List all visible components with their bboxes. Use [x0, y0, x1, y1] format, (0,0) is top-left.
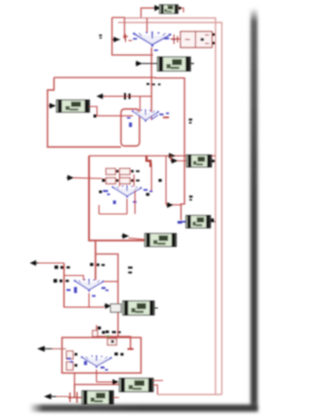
wire stage3 left edge: [89, 156, 145, 241]
wire Ra right lead + dot: [212, 160, 216, 162]
component marks stage4 row2: [54, 279, 69, 283]
arrow bottom-left of Rb2: [45, 394, 57, 398]
output label red stage2: [163, 117, 169, 119]
black dots on link: [107, 340, 110, 343]
rect stage5: [62, 338, 141, 374]
op-amp U1: [133, 31, 171, 46]
op-amp U5: [81, 355, 112, 367]
arrow at row end: [167, 203, 173, 207]
wire stage4 bottom: [64, 306, 89, 308]
green junction speck: [107, 336, 110, 338]
wire bottom long horizontal: [158, 394, 222, 396]
blue stub into Rb: [180, 221, 187, 223]
op-amp U3 labels: [103, 189, 153, 204]
component row2 stage3: [106, 178, 130, 184]
blue speck right of R4 top: [178, 221, 183, 224]
page shadow right bar: [29, 8, 258, 412]
resistor R4: [145, 234, 177, 247]
wire cap to op-amp2: [139, 96, 141, 110]
wire op-amp2 out join: [152, 115, 159, 120]
wire stage2 left frame: [48, 78, 122, 148]
wire input to vertical: [39, 262, 65, 264]
resistor Rb2: [82, 391, 114, 404]
grey element before R5: [111, 304, 122, 312]
black specks U3 sides: [99, 191, 149, 196]
wire stage1 rect left: [112, 18, 153, 56]
arrow into R top: [153, 6, 160, 11]
wire op-amp4 apex down: [89, 293, 104, 307]
wire relay to border ticks: [212, 35, 216, 44]
marks above stage5: [106, 331, 121, 334]
label f (stage1 left): [99, 35, 102, 37]
wire Rb1 top stub: [153, 380, 163, 382]
wire R4 left lead: [129, 238, 146, 240]
label Rk right column: [189, 119, 192, 124]
node dot R top: [179, 7, 182, 10]
arrow input stage4: [31, 261, 39, 265]
wire stage3 top line1: [89, 155, 216, 157]
wire op-amp1 output stub: [171, 38, 181, 40]
arrow into R3: [49, 104, 56, 108]
op-amp U2 labels: [127, 113, 169, 128]
specks right in stage5: [115, 353, 124, 356]
wire link horizontal: [98, 337, 131, 349]
label R9 stage4 right: [128, 267, 133, 274]
arrow stage2 top left: [97, 94, 105, 98]
label Rm right column: [189, 196, 192, 201]
node dots relay right: [212, 33, 215, 36]
wire R2 right lead: [191, 63, 195, 65]
wire Rb2 right lead: [114, 397, 119, 399]
wire stage1 inner vertical: [124, 18, 126, 40]
wire into op-amp2 minus: [97, 115, 133, 117]
wire stage4 left vertical: [63, 263, 65, 308]
arrow on stage3 top: [168, 154, 175, 158]
output pin marks: [174, 35, 178, 45]
wire right inner vertical: [125, 18, 216, 395]
relay box X1: [181, 32, 213, 48]
op-amp U3: [112, 185, 142, 197]
resistor Rb1: [119, 378, 153, 391]
marks above op-amp4: [90, 263, 105, 266]
wire R top right lead: [178, 8, 184, 13]
op-amp U1 labels: [133, 38, 175, 52]
wire stage1 top join: [112, 17, 125, 19]
red cluster left of Rb2: [68, 385, 82, 404]
wire into R top: [141, 8, 153, 18]
arrow op-amp1 input: [112, 37, 120, 41]
wire Ra left lead: [178, 160, 187, 162]
op-amp U5 labels: [67, 358, 108, 371]
page shadow bottom bar: [29, 405, 258, 412]
wire R3 right lead: [90, 107, 98, 116]
resistor Ra: [187, 155, 212, 167]
node dot R3 right: [94, 115, 97, 118]
wires under op-amp3: [99, 190, 135, 214]
wire right column verticals stage3: [166, 156, 181, 205]
component marks stage4 row1: [55, 266, 70, 269]
wire into op-amp4 plus: [104, 281, 118, 283]
component cluster left of link: [98, 327, 106, 334]
wire op-amp1 apex down long: [151, 48, 153, 121]
arrow into R4: [122, 234, 129, 238]
wire to Rb1: [97, 381, 113, 383]
arrow into Rb1: [112, 380, 118, 384]
rounded sub-rect stage2: [121, 109, 140, 146]
resistor R3: [57, 100, 90, 112]
resistor R2: [158, 57, 191, 71]
resistor R top: [160, 5, 179, 14]
arrow into Ra: [171, 159, 178, 163]
relay contact dot: [201, 38, 204, 41]
component row1 stage3: [106, 169, 130, 175]
wire down from stage3: [95, 241, 97, 281]
op-amp U2: [132, 109, 159, 121]
wire right outer vertical: [118, 23, 222, 395]
op-amp U4 labels: [67, 287, 109, 297]
thick corner blob: [147, 156, 151, 167]
input network marks op-amp1: [123, 34, 132, 42]
arrow into R5: [104, 304, 111, 308]
wire op-amp1 top feed: [146, 18, 148, 33]
wire op-amp5 apex down: [96, 370, 98, 383]
resistor Rb: [186, 216, 211, 228]
wire stage2 top: [104, 95, 152, 97]
wire R2 left lead: [141, 63, 159, 65]
arrow into stage3 rows: [67, 176, 74, 180]
wire to op-amp4 top: [64, 276, 84, 281]
resistor R5: [123, 301, 155, 315]
wire Rb1 right to border: [153, 385, 157, 395]
arrow output stage5: [39, 347, 53, 351]
wire arrow to stage3 box: [74, 177, 103, 180]
capacitor marks stage2: [124, 93, 131, 100]
arrow into R2: [136, 61, 142, 65]
labels f b o: [147, 83, 161, 85]
wire over to stage4 plus: [96, 254, 119, 337]
wire stage5 to bottom resistors: [75, 373, 120, 385]
op-amp U4: [74, 279, 104, 292]
red cluster left stage5: [67, 351, 74, 370]
wires rows to op-amp3: [120, 163, 152, 192]
wire Rb right lead + dot: [210, 221, 215, 223]
component top stage5: [108, 339, 117, 346]
wire R5 right stub: [154, 307, 158, 309]
wire frame y78: [54, 78, 185, 221]
